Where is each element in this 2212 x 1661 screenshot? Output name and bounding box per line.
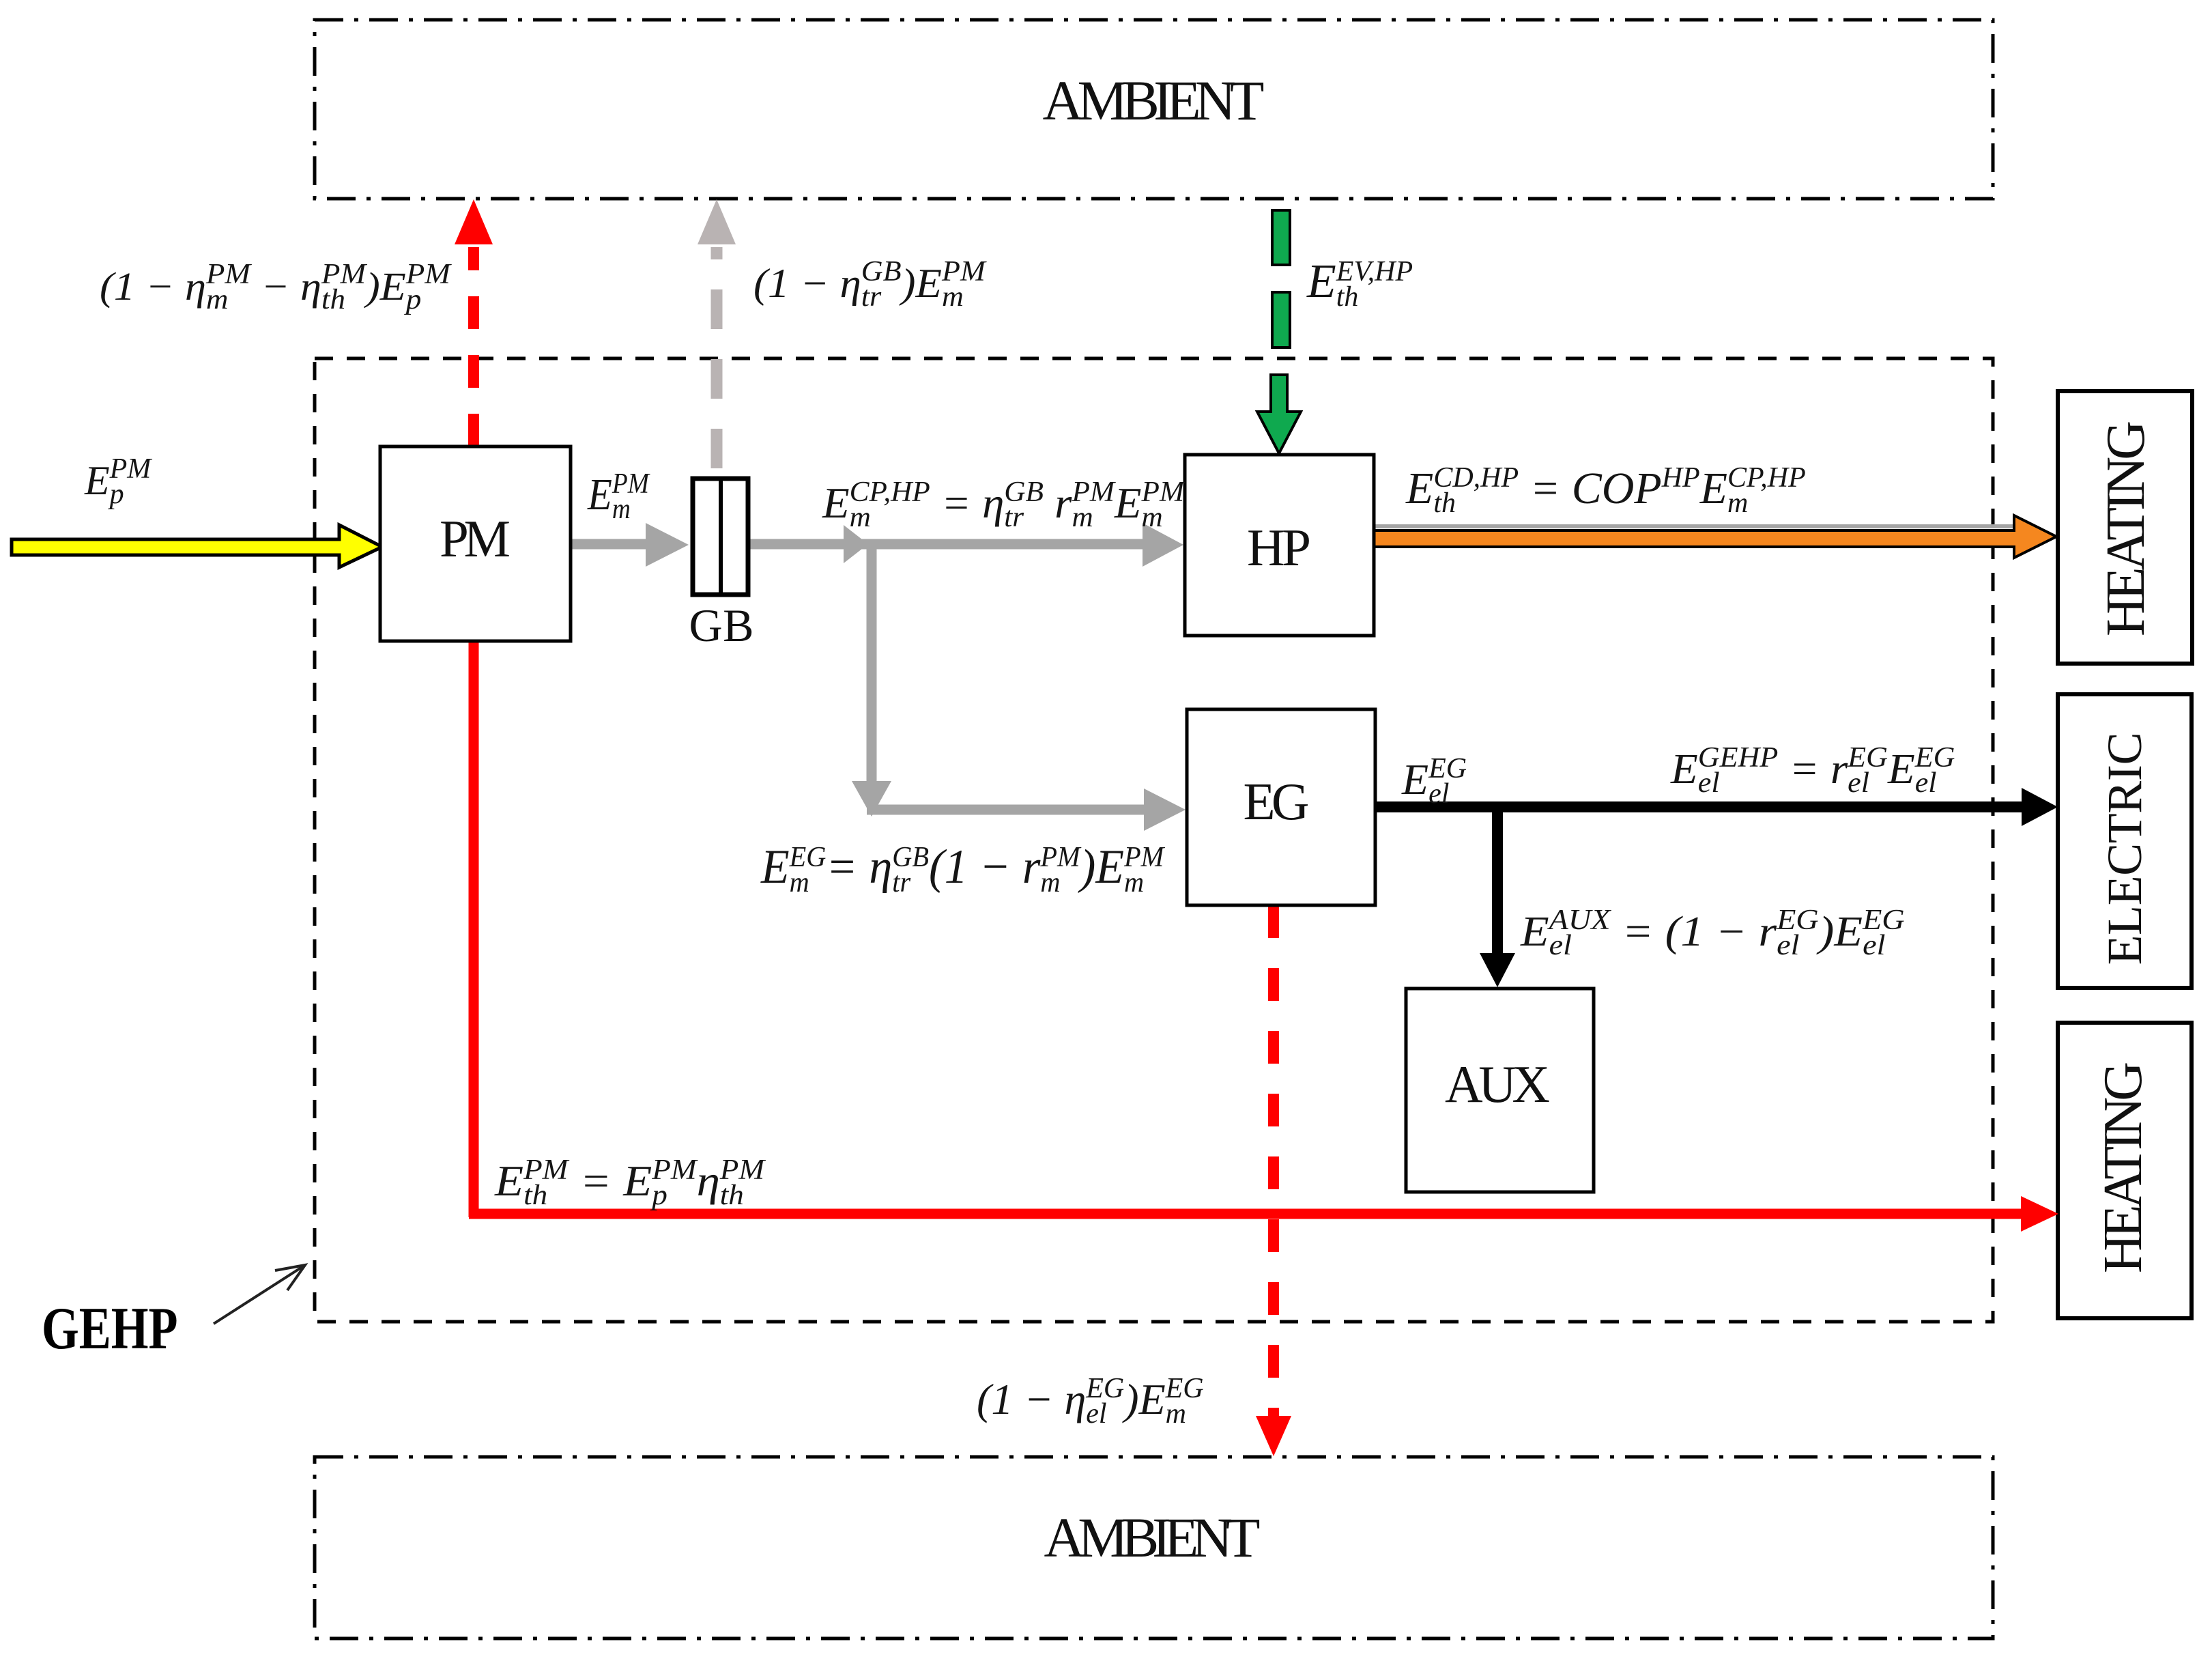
svg-text:ELECTRIC: ELECTRIC xyxy=(2097,733,2152,965)
svg-text:HP: HP xyxy=(1247,518,1311,577)
svg-text:HEATING: HEATING xyxy=(2093,1062,2153,1273)
svg-text:PM: PM xyxy=(440,509,511,568)
svg-text:AMBIENT: AMBIENT xyxy=(1043,69,1265,132)
svg-text:AMBIENT: AMBIENT xyxy=(1044,1506,1261,1569)
svg-text:EG: EG xyxy=(1244,772,1310,831)
svg-text:HEATING: HEATING xyxy=(2096,421,2156,636)
svg-text:GB: GB xyxy=(689,599,754,651)
svg-text:AUX: AUX xyxy=(1445,1055,1550,1113)
